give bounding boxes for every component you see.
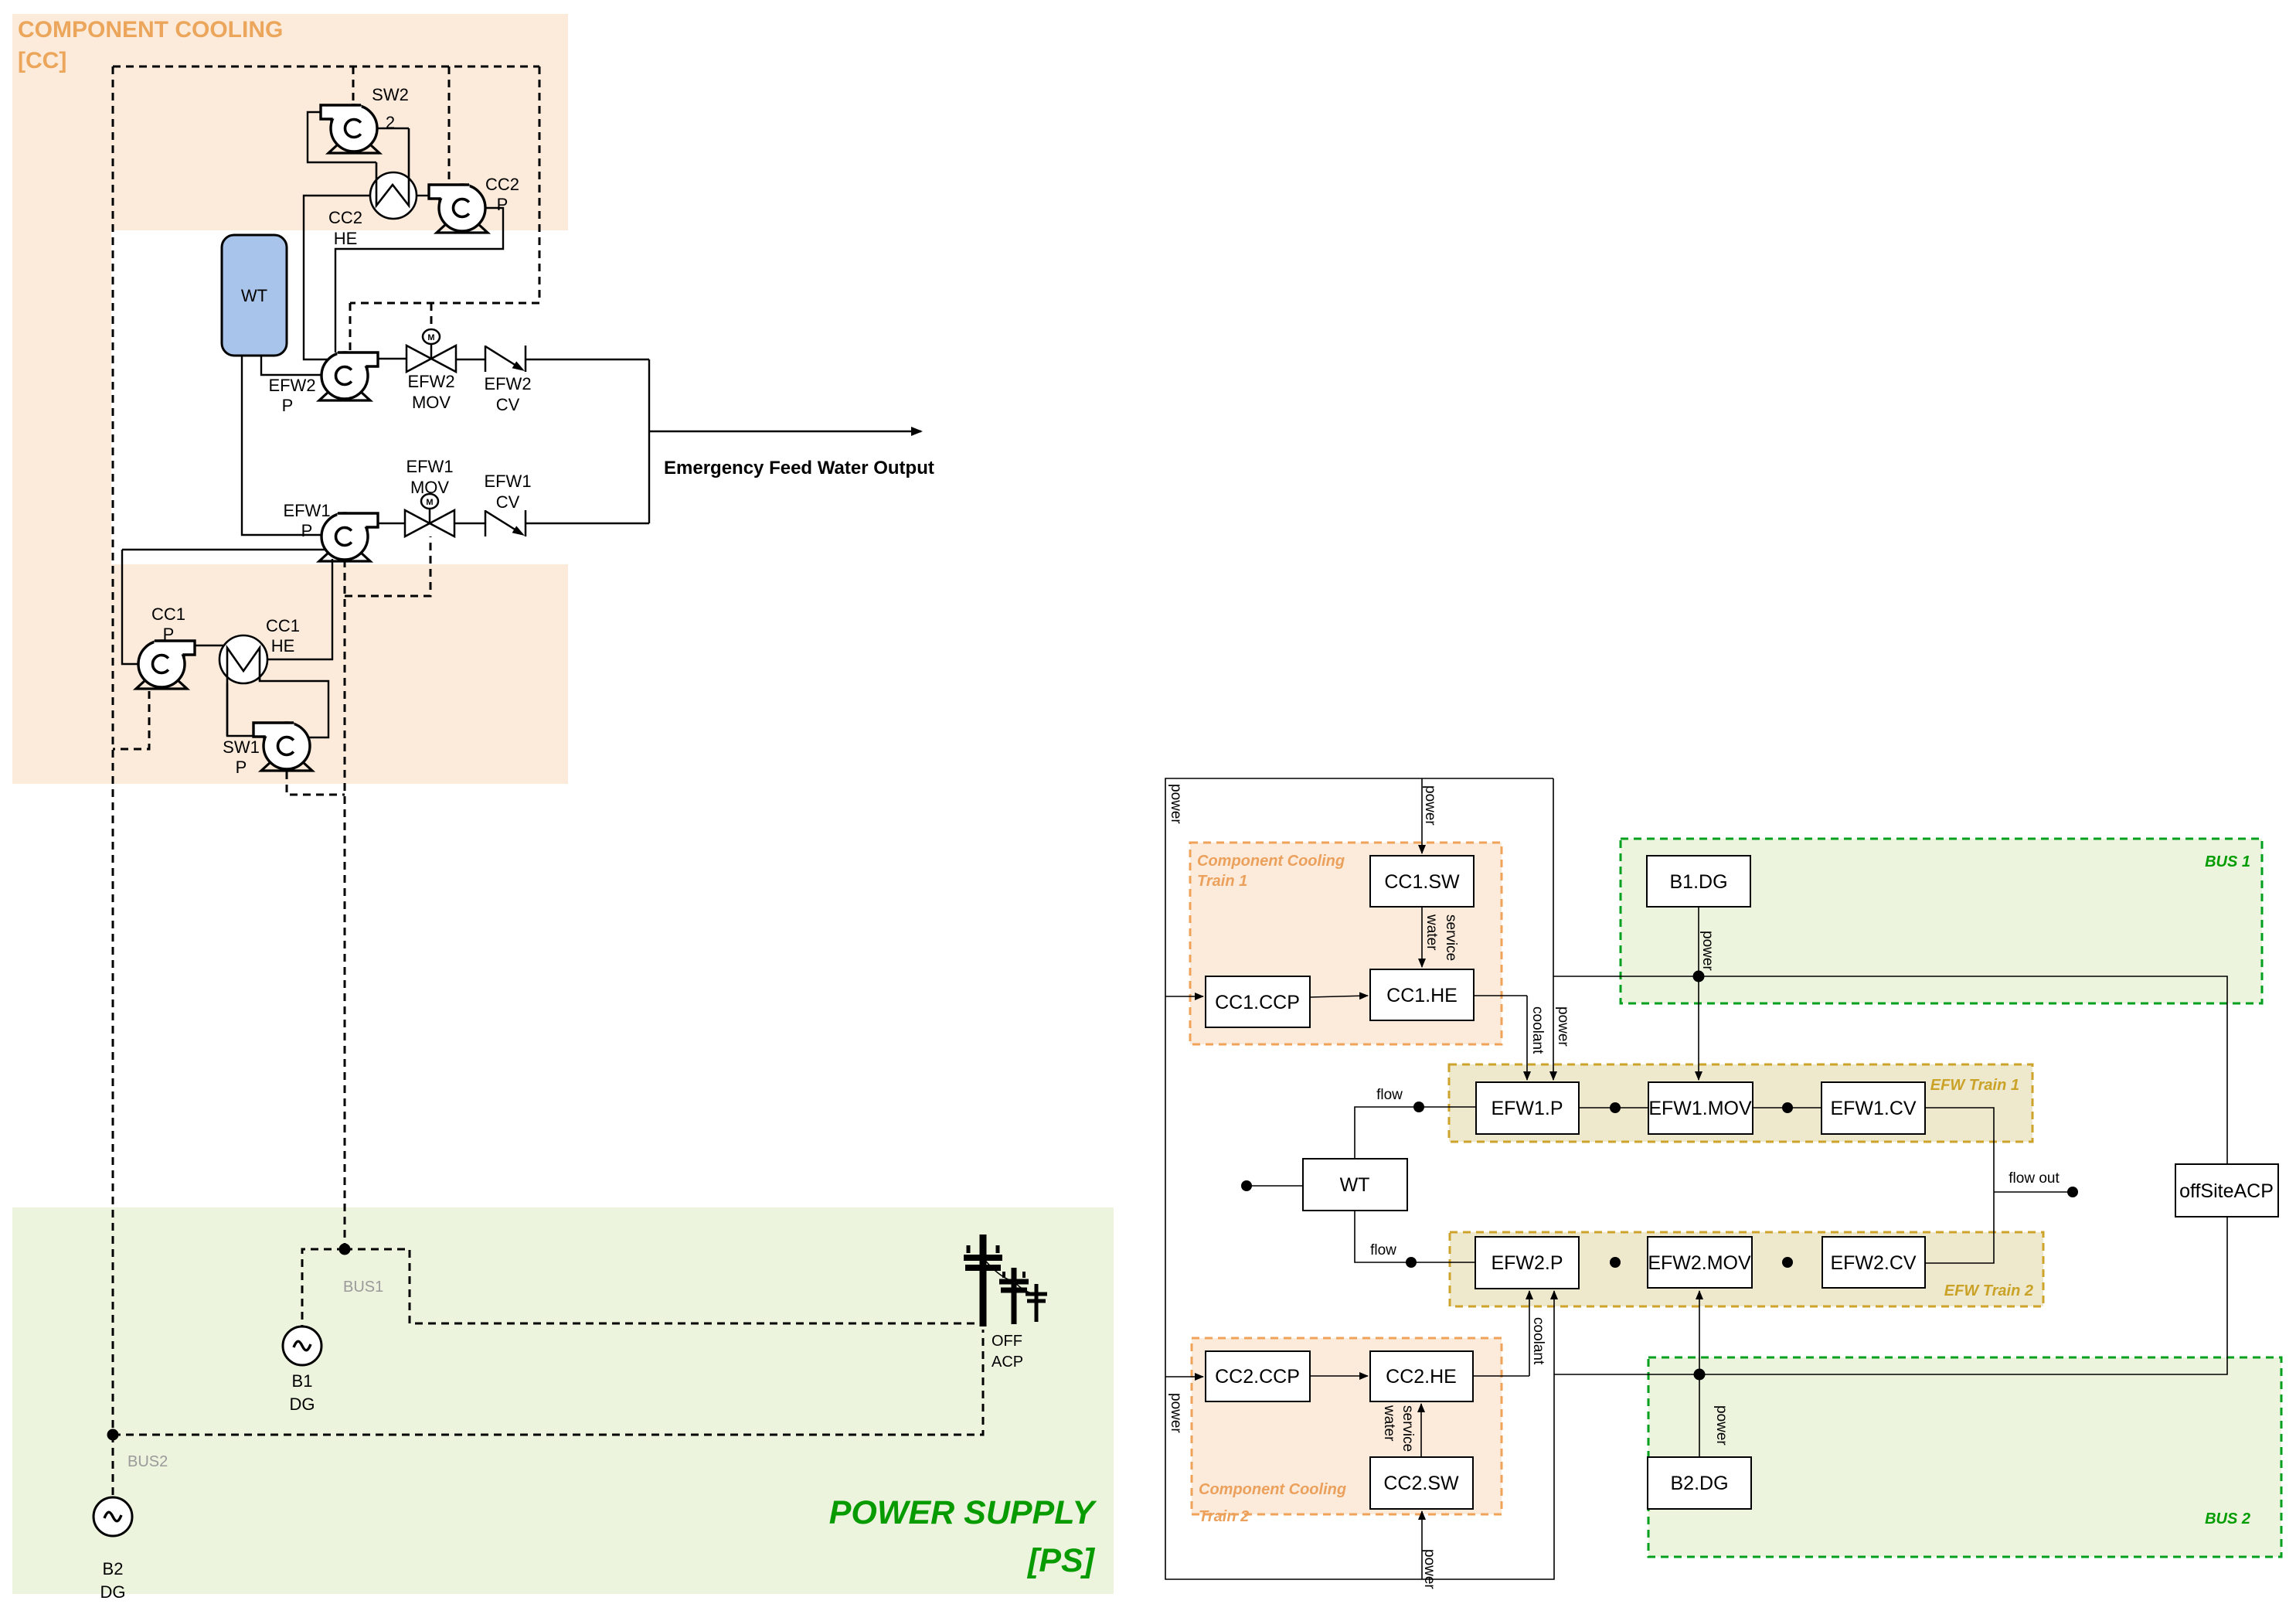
svg-text:offSiteACP: offSiteACP bbox=[2179, 1180, 2274, 1202]
svg-text:power: power bbox=[1699, 931, 1716, 971]
wire CC2.HE coolant horizontal bbox=[1473, 1375, 1529, 1377]
svg-text:BUS1: BUS1 bbox=[343, 1279, 383, 1296]
wire EFW1.CV to flow out bbox=[1925, 1108, 1994, 1263]
wire bus right vertical bbox=[539, 66, 541, 303]
node dot EFW2 flow bbox=[1406, 1257, 1417, 1268]
svg-text:DG: DG bbox=[290, 1395, 315, 1414]
group EFW Train 1 bbox=[1449, 1064, 2032, 1142]
wire SW2 outlet loop to CC2.HE left tube bbox=[308, 112, 376, 162]
svg-text:CC2.CCP: CC2.CCP bbox=[1215, 1366, 1300, 1388]
wire CC1.HE coolant horizontal bbox=[1474, 995, 1527, 996]
wire WT to EFW1 pump suction bbox=[242, 356, 322, 535]
svg-text:water: water bbox=[1381, 1405, 1397, 1442]
wire sw2 pump power drop bbox=[352, 66, 355, 105]
wire bus2 horizontal to OFF ACP bbox=[113, 1330, 983, 1435]
svg-text:CC2.SW: CC2.SW bbox=[1383, 1473, 1459, 1494]
wire efw1 mov power branch bbox=[345, 536, 430, 596]
box CC1.HE bbox=[1370, 969, 1474, 1020]
svg-text:power: power bbox=[1168, 784, 1184, 824]
group BUS 2 bbox=[1648, 1357, 2281, 1557]
svg-text:B1.DG: B1.DG bbox=[1669, 871, 1727, 893]
svg-text:EFW1.CV: EFW1.CV bbox=[1830, 1098, 1916, 1119]
svg-text:[PS]: [PS] bbox=[1026, 1542, 1096, 1579]
block connections bbox=[1165, 778, 2227, 1579]
svg-text:P: P bbox=[163, 625, 175, 644]
pump CC1.P bbox=[136, 641, 195, 689]
valve EFW2.MOV bbox=[406, 329, 456, 372]
wire bus1 right branch to OFF ACP bbox=[345, 1249, 983, 1323]
wire bus top horizontal bbox=[113, 66, 539, 68]
component cooling orange region top band bbox=[12, 14, 568, 230]
tank WT bbox=[222, 235, 287, 356]
svg-text:power: power bbox=[1422, 785, 1438, 826]
wire efw2 mov power drop bbox=[430, 303, 433, 328]
group EFW Train 2 bbox=[1450, 1232, 2043, 1306]
svg-text:power: power bbox=[1168, 1393, 1184, 1433]
wire B2.DG to bus2 bbox=[1699, 1374, 1700, 1457]
svg-text:2: 2 bbox=[386, 113, 395, 132]
svg-text:SW2: SW2 bbox=[372, 85, 409, 104]
svg-text:EFW1: EFW1 bbox=[484, 472, 531, 491]
svg-text:Component Cooling: Component Cooling bbox=[1197, 853, 1345, 870]
wire CC2.HE left to coolant down pipe bbox=[304, 196, 370, 359]
svg-text:CC1.CCP: CC1.CCP bbox=[1215, 992, 1300, 1013]
wire CC1 loop to EFW1 pump suction side bbox=[122, 549, 326, 550]
pump CC2.P bbox=[429, 185, 488, 233]
svg-text:B2.DG: B2.DG bbox=[1670, 1473, 1728, 1494]
wire bus1 power horizontal bbox=[1553, 976, 2227, 1164]
wire power arrow into CC1.CCP bbox=[1165, 996, 1203, 997]
pump EFW2.P bbox=[319, 352, 378, 400]
svg-text:BUS2: BUS2 bbox=[128, 1453, 168, 1470]
node dot EFW1.P-MOV bbox=[1610, 1102, 1621, 1113]
node dot B2 bus junction bbox=[1694, 1369, 1706, 1381]
svg-text:B1: B1 bbox=[292, 1371, 313, 1391]
svg-text:Component Cooling: Component Cooling bbox=[1199, 1481, 1346, 1498]
box CC2.CCP bbox=[1206, 1351, 1310, 1401]
wire B1.DG power arrow into EFW1.MOV bbox=[1698, 907, 1699, 1080]
svg-text:HE: HE bbox=[334, 229, 358, 248]
wire CC1.HE left tube down to SW1 pump bbox=[227, 683, 253, 736]
wire bus1 left branch to B1.DG bbox=[302, 1249, 345, 1326]
box B2.DG bbox=[1648, 1457, 1751, 1509]
box CC2.HE bbox=[1370, 1351, 1473, 1401]
node BUS2 junction bbox=[107, 1429, 119, 1441]
svg-text:Train 1: Train 1 bbox=[1197, 873, 1247, 890]
svg-text:SW1: SW1 bbox=[223, 737, 260, 757]
svg-text:HE: HE bbox=[271, 636, 295, 656]
wire WT to flow1 bbox=[1355, 1107, 1476, 1159]
svg-text:CC1.HE: CC1.HE bbox=[1386, 985, 1458, 1006]
svg-text:CC1: CC1 bbox=[151, 604, 185, 624]
wire EFW2 MOV to EFW2 CV bbox=[456, 359, 485, 360]
node BUS1 junction bbox=[339, 1244, 351, 1255]
svg-text:coolant: coolant bbox=[1529, 1006, 1546, 1054]
component cooling orange region bottom band bbox=[12, 564, 568, 784]
box EFW2.P bbox=[1475, 1237, 1579, 1289]
svg-text:EFW2.CV: EFW2.CV bbox=[1830, 1252, 1916, 1274]
wire manifold vertical bbox=[648, 359, 650, 523]
node dot EFW1 flow bbox=[1413, 1102, 1424, 1112]
svg-text:COMPONENT COOLING: COMPONENT COOLING bbox=[18, 17, 283, 43]
node dot EFW1.MOV-CV bbox=[1782, 1102, 1793, 1113]
pump SW2.P bbox=[321, 105, 379, 153]
svg-text:flow: flow bbox=[1370, 1242, 1396, 1258]
svg-text:service: service bbox=[1443, 914, 1459, 961]
svg-text:CC2: CC2 bbox=[328, 208, 362, 227]
check valve EFW2.CV bbox=[485, 346, 526, 372]
svg-text:EFW1: EFW1 bbox=[283, 501, 330, 520]
generator B2.DG bbox=[94, 1497, 132, 1536]
svg-text:water: water bbox=[1424, 914, 1440, 951]
wire power arrow into CC2.SW bbox=[1421, 1511, 1423, 1579]
wire sw1 pump power bbox=[287, 771, 345, 795]
svg-text:CV: CV bbox=[496, 492, 520, 512]
wire power loop bottom bbox=[1165, 996, 1554, 1579]
check valve EFW1.CV bbox=[485, 510, 526, 536]
svg-text:EFW2: EFW2 bbox=[268, 376, 315, 395]
wire power loop left and top bbox=[1165, 778, 1553, 996]
wire CC1 pump outlet to CC1.HE bbox=[195, 645, 224, 646]
power supply green region bbox=[12, 1207, 1114, 1594]
node dot B1 bus junction bbox=[1693, 971, 1705, 982]
wire efw1 power vertical to bus1 bbox=[344, 560, 346, 1244]
svg-text:MOV: MOV bbox=[412, 393, 451, 412]
wire WT to flow2 bbox=[1355, 1211, 1475, 1262]
wire power arrow into CC2.CCP bbox=[1165, 1376, 1203, 1378]
svg-text:CC1.SW: CC1.SW bbox=[1384, 871, 1460, 893]
node dot EFW2.P-MOV bbox=[1610, 1257, 1621, 1268]
wire SW2 suction from CC2.HE right tube bbox=[377, 128, 409, 129]
wire efw2 pump power drop bbox=[349, 303, 352, 352]
svg-text:WT: WT bbox=[241, 286, 267, 305]
svg-text:EFW2.MOV: EFW2.MOV bbox=[1648, 1252, 1751, 1274]
pump EFW1.P bbox=[319, 513, 378, 561]
wire EFW1 MOV to EFW1 CV bbox=[454, 523, 485, 524]
svg-text:coolant: coolant bbox=[1530, 1317, 1546, 1365]
wire EFW1 pump to EFW1 MOV bbox=[378, 523, 405, 524]
group BUS 1 bbox=[1621, 839, 2262, 1003]
svg-text:P: P bbox=[301, 521, 313, 540]
svg-text:WT: WT bbox=[1340, 1174, 1370, 1196]
wire EFW1.P to EFW1.MOV bbox=[1579, 1107, 1648, 1108]
box CC2.SW bbox=[1370, 1457, 1473, 1509]
svg-text:CV: CV bbox=[496, 395, 520, 414]
wire CC1 pump suction drop bbox=[122, 550, 138, 664]
wire CC1.HE right to EFW1 pump coolant return bbox=[267, 559, 332, 659]
svg-text:ACP: ACP bbox=[992, 1354, 1023, 1371]
wire EFW1.MOV to EFW1.CV bbox=[1753, 1107, 1821, 1108]
component cooling orange region left strip bbox=[12, 230, 111, 784]
wire bus2 main vertical bbox=[112, 66, 114, 1429]
generator B1.DG bbox=[283, 1326, 321, 1365]
box EFW1.MOV bbox=[1648, 1082, 1753, 1134]
wire cc1 pump power bbox=[113, 691, 149, 749]
svg-text:Emergency Feed Water Output: Emergency Feed Water Output bbox=[664, 458, 934, 478]
svg-text:service: service bbox=[1400, 1405, 1416, 1452]
wire power arrow into CC1.SW bbox=[1421, 778, 1423, 853]
svg-text:P: P bbox=[497, 195, 509, 214]
box EFW2.MOV bbox=[1648, 1237, 1752, 1288]
box CC1.SW bbox=[1370, 856, 1474, 907]
svg-text:EFW2.P: EFW2.P bbox=[1491, 1252, 1563, 1274]
box CC1.CCP bbox=[1206, 976, 1310, 1027]
svg-text:P: P bbox=[236, 758, 247, 777]
wire bus2 drop to B2.DG bbox=[112, 1435, 114, 1497]
box offSiteACP bbox=[2175, 1164, 2278, 1217]
pump SW1.P bbox=[253, 723, 312, 771]
svg-text:EFW1: EFW1 bbox=[406, 457, 453, 476]
wire efw2 power horizontal bbox=[350, 302, 539, 305]
svg-text:Train 2: Train 2 bbox=[1199, 1508, 1249, 1525]
svg-text:DG: DG bbox=[100, 1582, 126, 1602]
wire EFW1 CV to manifold bbox=[526, 523, 649, 524]
svg-text:CC1: CC1 bbox=[266, 616, 300, 635]
svg-text:MOV: MOV bbox=[410, 478, 449, 497]
wire coolant arrow into EFW1.P bbox=[1526, 996, 1528, 1080]
svg-text:OFF: OFF bbox=[992, 1333, 1022, 1350]
node dot WT input bbox=[1241, 1180, 1252, 1191]
wire power arrow into EFW1.P bbox=[1553, 976, 1554, 1080]
block boxes bbox=[1206, 856, 2278, 1509]
svg-text:flow out: flow out bbox=[2009, 1170, 2060, 1187]
svg-text:BUS 2: BUS 2 bbox=[2205, 1510, 2250, 1527]
box EFW2.CV bbox=[1822, 1237, 1925, 1288]
svg-text:power: power bbox=[1421, 1549, 1437, 1589]
wire WT to EFW2 pump suction bbox=[261, 356, 322, 375]
wire cc2 pump power drop bbox=[448, 66, 451, 184]
wire B2.DG power arrow into EFW2.MOV bbox=[1699, 1291, 1700, 1374]
group Component Cooling Train 2 bbox=[1192, 1338, 1502, 1514]
box B1.DG bbox=[1647, 856, 1750, 907]
svg-text:EFW Train 1: EFW Train 1 bbox=[1930, 1077, 2019, 1094]
box EFW1.CV bbox=[1821, 1082, 1925, 1134]
svg-text:B2: B2 bbox=[103, 1559, 124, 1578]
svg-text:flow: flow bbox=[1376, 1087, 1403, 1103]
svg-text:CC2: CC2 bbox=[485, 175, 519, 194]
svg-text:BUS 1: BUS 1 bbox=[2205, 853, 2250, 870]
wire power feed EFW1.P vertical bbox=[1553, 778, 1554, 976]
wire arrow CC2.CCP to CC2.HE bbox=[1310, 1375, 1368, 1377]
wire CC2.HE right to CC2 pump bbox=[417, 195, 429, 196]
svg-text:[CC]: [CC] bbox=[18, 48, 66, 73]
wire service water arrow CC1.SW to CC1.HE bbox=[1421, 907, 1423, 967]
svg-text:EFW2: EFW2 bbox=[407, 372, 454, 391]
wire emergency feed water output arrow bbox=[649, 431, 921, 432]
box WT bbox=[1303, 1159, 1407, 1211]
power pylons OFF ACP icon bbox=[964, 1235, 1047, 1326]
wire coolant arrow into EFW2.P bbox=[1529, 1291, 1530, 1376]
svg-text:CC2.HE: CC2.HE bbox=[1386, 1366, 1457, 1388]
svg-text:power: power bbox=[1555, 1006, 1571, 1047]
wire arrow CC1.CCP to CC1.HE bbox=[1310, 996, 1368, 997]
solid piping bbox=[122, 112, 649, 737]
wire WT input bbox=[1247, 1185, 1303, 1187]
group Component Cooling Train 1 bbox=[1190, 843, 1502, 1044]
svg-text:EFW2: EFW2 bbox=[484, 374, 531, 393]
valve EFW1.MOV bbox=[405, 494, 454, 536]
svg-text:EFW Train 2: EFW Train 2 bbox=[1944, 1282, 2033, 1299]
heat exchanger CC2.HE bbox=[370, 128, 417, 219]
svg-text:power: power bbox=[1713, 1405, 1730, 1446]
node dot flow out bbox=[2067, 1187, 2078, 1197]
wire SW1 pump outlet loop to CC1.HE bbox=[260, 676, 328, 737]
wire EFW2 CV to manifold bbox=[526, 359, 649, 360]
svg-text:EFW1.P: EFW1.P bbox=[1491, 1098, 1563, 1119]
dashed power bus rectangle top edge bbox=[113, 66, 983, 1497]
node dot EFW2.MOV-CV bbox=[1782, 1257, 1793, 1268]
wire service water arrow CC2.SW to CC2.HE bbox=[1420, 1404, 1422, 1457]
heat exchanger CC1.HE bbox=[219, 635, 267, 736]
wire EFW2 pump to EFW2 MOV bbox=[378, 358, 406, 359]
wire flow out stub bbox=[1994, 1191, 2068, 1193]
svg-text:P: P bbox=[282, 396, 294, 415]
svg-text:EFW1.MOV: EFW1.MOV bbox=[1648, 1098, 1752, 1119]
box EFW1.P bbox=[1476, 1082, 1579, 1134]
wire bus2 power horizontal bbox=[1554, 1217, 2227, 1374]
svg-text:POWER SUPPLY: POWER SUPPLY bbox=[829, 1494, 1097, 1531]
wire power arrow into EFW2.P bbox=[1553, 1291, 1555, 1374]
wire CC2 pump outlet loop to EFW2 pump bbox=[335, 208, 503, 352]
